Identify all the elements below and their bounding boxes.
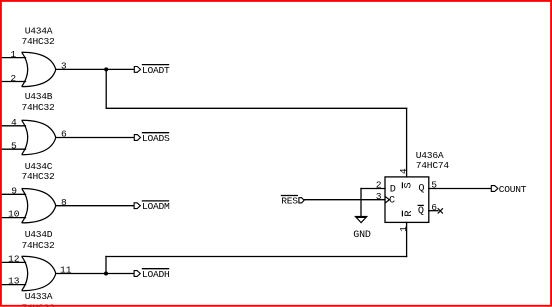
svg-text:R: R: [404, 210, 415, 216]
or-gate U434D body: [22, 256, 56, 290]
junction node LOADT: [104, 67, 108, 71]
global label LOADT: [134, 65, 170, 76]
global label LOADM: [134, 201, 170, 212]
svg-text:4: 4: [398, 168, 409, 174]
svg-text:2: 2: [10, 73, 16, 84]
svg-text:2: 2: [376, 180, 382, 191]
svg-text:3: 3: [61, 61, 67, 72]
svg-text:4: 4: [11, 117, 17, 128]
wire output U434B to LOADS: [56, 137, 135, 139]
wire to pin 4 U436A: [406, 108, 408, 177]
svg-text:GND: GND: [353, 230, 371, 241]
svg-text:COUNT: COUNT: [499, 184, 527, 195]
wire output U434C to LOADM: [56, 205, 134, 207]
ground symbol: [355, 217, 368, 223]
wire pin6 U436A stub: [429, 210, 438, 212]
svg-text:9: 9: [11, 185, 17, 196]
wire pin4 U434B: [1, 125, 26, 127]
svg-text:Q: Q: [418, 184, 424, 195]
svg-text:12: 12: [8, 254, 20, 265]
wire RES to pin 3 U436A: [305, 199, 385, 201]
wire LOADT branch horizontal: [106, 107, 406, 109]
no-connect X on pin 6: [438, 208, 443, 213]
or-gate U434C body: [22, 189, 56, 223]
wire pin2 U434A: [1, 81, 26, 83]
svg-text:5: 5: [11, 140, 17, 151]
svg-text:5: 5: [431, 179, 437, 190]
svg-text:LOADH: LOADH: [142, 269, 170, 280]
wire LOADT branch vertical: [105, 69, 107, 108]
wire pin10 U434C: [1, 217, 26, 219]
global label LOADH: [134, 269, 169, 280]
clock edge mark: [385, 196, 389, 203]
global label RES: [281, 195, 304, 206]
svg-text:C: C: [389, 196, 395, 207]
wire pin12 U434D: [1, 261, 26, 263]
wire pin1 U434A: [1, 57, 26, 59]
svg-text:10: 10: [8, 209, 20, 220]
wire pin2 U436A stub: [361, 188, 385, 190]
wire LOADH branch vertical: [105, 257, 107, 274]
svg-text:LOADM: LOADM: [142, 201, 170, 212]
svg-text:LOADS: LOADS: [142, 133, 170, 144]
wire pin9 U434C: [1, 193, 26, 195]
svg-text:U434B: U434B: [25, 91, 53, 102]
svg-text:74HC32: 74HC32: [21, 240, 55, 251]
svg-text:S: S: [403, 182, 414, 188]
flip-flop U436A body: [385, 177, 429, 223]
svg-text:8: 8: [61, 197, 67, 208]
svg-text:U434D: U434D: [25, 229, 53, 240]
global label COUNT: [491, 184, 526, 195]
svg-text:74HC32: 74HC32: [21, 102, 55, 113]
wire pin2 to ground: [360, 189, 362, 217]
svg-text:11: 11: [60, 265, 72, 276]
svg-text:RES: RES: [281, 195, 298, 206]
wire pin13 U434D: [1, 284, 26, 286]
wire LOADH branch horizontal: [106, 256, 407, 258]
svg-text:D: D: [390, 184, 396, 195]
svg-text:74HC32: 74HC32: [21, 36, 55, 47]
svg-text:Q: Q: [418, 206, 424, 217]
svg-text:1: 1: [398, 226, 409, 232]
svg-text:6: 6: [61, 129, 67, 140]
svg-text:LOADT: LOADT: [142, 65, 170, 76]
wire output U434D to LOADH: [56, 273, 134, 275]
svg-text:U433A: U433A: [25, 291, 53, 302]
svg-text:6: 6: [431, 202, 437, 213]
wire to pin 1 U436A: [406, 222, 408, 256]
svg-text:U434A: U434A: [25, 25, 53, 36]
or-gate U434B body: [22, 120, 56, 154]
wire pin5 U436A to COUNT: [429, 188, 492, 190]
svg-text:74HC74: 74HC74: [416, 160, 450, 171]
global label LOADS: [134, 133, 170, 144]
svg-text:3: 3: [376, 191, 382, 202]
or-gate U434A body: [22, 52, 56, 86]
wire output U434A to LOADT: [56, 68, 135, 70]
junction node LOADH: [104, 272, 108, 276]
svg-text:U434C: U434C: [25, 161, 53, 172]
svg-text:1: 1: [10, 49, 16, 60]
wire pin5 U434B: [1, 148, 26, 150]
svg-text:13: 13: [8, 276, 20, 287]
svg-text:74HC32: 74HC32: [21, 171, 55, 182]
